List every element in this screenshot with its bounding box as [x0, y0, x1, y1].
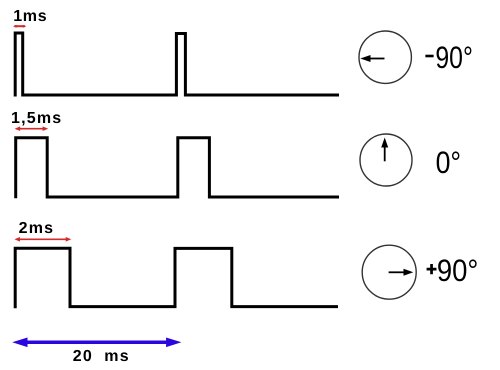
svg-text:1,5ms: 1,5ms: [11, 110, 62, 127]
svg-text:0°: 0°: [436, 145, 462, 180]
svg-text:20 ms: 20 ms: [73, 348, 130, 365]
svg-text:90°: 90°: [435, 40, 473, 75]
svg-text:2ms: 2ms: [19, 220, 55, 237]
svg-text:90°: 90°: [437, 253, 479, 288]
svg-text:1ms: 1ms: [13, 8, 47, 25]
